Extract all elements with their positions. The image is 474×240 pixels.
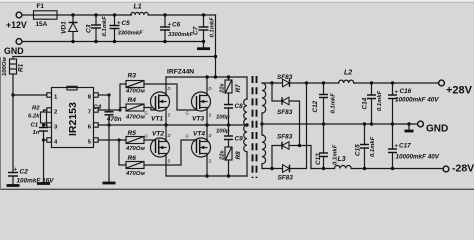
capacitor C15 0.1mkF <box>355 124 377 169</box>
svg-text:+: + <box>395 90 399 96</box>
node C5 top <box>113 13 116 16</box>
wire pin 4 stub to ground line <box>44 139 47 141</box>
node pin 8 / C4 <box>107 93 110 96</box>
svg-text:6.2k: 6.2k <box>28 114 40 120</box>
node C12 bottom <box>322 122 325 125</box>
svg-text:S: S <box>209 159 212 164</box>
node +12V rail / VCC feed <box>214 55 217 58</box>
wire -28V bus right of L3 <box>351 168 443 170</box>
node C14 bottom <box>370 122 373 125</box>
node pin4 ground <box>42 138 45 141</box>
diode D3 SF83 <box>277 97 293 116</box>
svg-text:+28V: +28V <box>446 85 473 97</box>
ground symbol under C4 line <box>103 182 116 185</box>
svg-text:L2: L2 <box>344 70 352 77</box>
wire VT1 drain to +12V drain rail <box>165 77 167 96</box>
node bottom rail R8 <box>227 174 230 177</box>
svg-text:470Ом: 470Ом <box>125 115 145 121</box>
wire VT4 drain to midpoint rail <box>206 125 208 142</box>
svg-text:+: + <box>117 21 121 27</box>
wire VCC feed line to R1 <box>13 56 216 58</box>
pin 1 <box>47 93 58 101</box>
node VD1 top <box>71 13 74 16</box>
transformer secondary winding lower <box>262 135 266 164</box>
node drain rail VT3 <box>205 75 208 78</box>
inductor L3 <box>335 156 352 169</box>
node C16 top <box>391 81 394 84</box>
diode D2 SF83 <box>278 165 294 182</box>
svg-text:R3: R3 <box>128 73 137 80</box>
wire pin 3 stub <box>44 125 47 128</box>
inductor L1 <box>131 4 149 16</box>
svg-text:C17: C17 <box>399 143 411 150</box>
node C12 top <box>322 81 325 84</box>
svg-text:SF83: SF83 <box>277 134 293 141</box>
resistor R8 22k <box>220 140 243 177</box>
ground symbol at input filter <box>197 42 210 49</box>
pin 7 <box>88 108 98 116</box>
svg-text:VT2: VT2 <box>152 131 164 138</box>
wire GND rail <box>22 41 204 43</box>
svg-text:D: D <box>168 133 171 138</box>
capacitor C6 3300mkF <box>160 15 194 42</box>
svg-text:0.1mkF: 0.1mkF <box>377 90 383 111</box>
wire pin7 node up to R3 <box>120 84 126 110</box>
wire pin 6 to midpoint rail <box>98 124 247 126</box>
ground symbol under C2 <box>7 184 20 187</box>
node bottom rail VT4 <box>205 174 208 177</box>
svg-text:R7: R7 <box>235 84 242 93</box>
capacitor C4 470n <box>93 104 122 123</box>
wire secondary center tap <box>261 113 263 135</box>
node drain rail +12V feed <box>214 75 217 78</box>
capacitor C8 100p <box>216 103 243 125</box>
node midpoint rail VT3 <box>205 123 208 126</box>
capacitor C16 10000mkF 40V <box>388 83 439 124</box>
svg-text:3300mkF: 3300mkF <box>118 31 144 37</box>
wire -28V bus left of L3 <box>311 168 335 170</box>
svg-text:R5: R5 <box>128 130 137 137</box>
svg-text:3300mkF: 3300mkF <box>168 32 194 38</box>
wire +12V rail drop to VCC feed <box>215 15 217 77</box>
wire VT4 source to bottom rail <box>206 154 208 177</box>
svg-text:100p: 100p <box>216 129 230 135</box>
capacitor C5 3300mkF <box>110 15 144 42</box>
svg-text:C3: C3 <box>86 24 93 33</box>
ground symbol under C1 <box>37 182 50 185</box>
svg-text:+: + <box>168 22 172 28</box>
node C3 bottom <box>94 40 97 43</box>
svg-text:+: + <box>395 144 399 150</box>
node C14 top <box>370 81 373 84</box>
node D2 riser on +28V bus <box>305 81 308 84</box>
transformer primary winding <box>244 99 247 152</box>
svg-text:100Ом: 100Ом <box>2 57 8 76</box>
node C17 bottom <box>391 167 394 170</box>
capacitor C7 0.1mkF <box>193 15 216 42</box>
node C3 top <box>94 13 97 16</box>
node C7 top <box>202 13 205 16</box>
transistor Q VT3 <box>186 86 212 123</box>
resistor R1 100Om <box>2 57 25 96</box>
svg-text:C1: C1 <box>31 123 39 129</box>
svg-text:SF83: SF83 <box>278 175 294 182</box>
pin 2 <box>47 108 58 116</box>
node pin 5 branch <box>117 138 120 141</box>
node C13 bottom <box>322 167 325 170</box>
svg-text:C15: C15 <box>355 144 362 156</box>
pin 6 <box>88 123 98 131</box>
wire pin 7 <box>98 109 120 111</box>
node midpoint rail primary tap <box>245 123 248 126</box>
wire VT3 source to midpoint rail <box>206 108 208 126</box>
node C15 top <box>363 122 366 125</box>
wire top rail after L1 <box>149 14 216 16</box>
capacitor C17 10000mkF 40V <box>388 124 440 169</box>
wire pin 5 <box>98 139 126 141</box>
capacitor C12 0.1mkF <box>312 83 337 124</box>
wire pin8 node down to C4 <box>108 95 110 112</box>
node pin3 / C1 <box>42 123 45 126</box>
ground symbol on mid bus <box>405 122 414 131</box>
svg-text:S: S <box>209 113 212 118</box>
svg-text:10000mkF 40V: 10000mkF 40V <box>395 97 439 104</box>
wire VT2 source to bottom rail <box>165 154 167 177</box>
svg-text:470Ом: 470Ом <box>125 146 145 152</box>
svg-text:15A: 15A <box>36 21 48 28</box>
node VD1 bottom <box>71 40 74 43</box>
svg-text:10000mkF 40V: 10000mkF 40V <box>396 154 440 161</box>
node secondary tap <box>260 122 263 125</box>
svg-text:-28V: -28V <box>452 163 474 175</box>
node C15 bottom <box>363 167 366 170</box>
node X1 <box>270 81 273 84</box>
resistor R7 22k <box>220 77 243 105</box>
transistor Q VT4 <box>186 131 212 164</box>
wire +28V bus after L2 <box>354 82 439 84</box>
wire VCC node down to C2 <box>12 95 14 173</box>
svg-text:0.1mkF: 0.1mkF <box>210 17 216 38</box>
svg-text:L3: L3 <box>338 156 346 163</box>
svg-text:22к: 22к <box>220 149 226 161</box>
terminal +12V <box>6 12 27 30</box>
node midpoint rail VT1 <box>164 123 167 126</box>
svg-text:C9: C9 <box>235 136 244 143</box>
wire X1 to diodes <box>262 82 283 84</box>
wire VCC node to pin 1 <box>13 94 47 96</box>
svg-text:IRFZ44N: IRFZ44N <box>167 69 194 76</box>
svg-text:SF83: SF83 <box>277 109 293 116</box>
transistor Q VT2 <box>145 131 171 164</box>
node X2 <box>270 167 273 170</box>
svg-text:GND: GND <box>4 46 24 56</box>
wire D2 cathode riser to +28V bus <box>290 83 307 169</box>
capacitor C3 0.1mkF <box>86 15 109 42</box>
svg-text:+12V: +12V <box>6 20 27 30</box>
pin 8 <box>88 93 98 101</box>
diode D1 SF83 <box>277 74 293 87</box>
node C4 / pin 6 line <box>107 123 110 126</box>
svg-text:R2: R2 <box>32 106 40 112</box>
resistor R6 470Om <box>125 155 145 177</box>
wire X1 down to D3 <box>272 83 283 101</box>
pin 5 <box>88 138 98 146</box>
wire VT2 drain to midpoint rail <box>165 125 167 142</box>
wire primary bottom lead <box>246 152 248 176</box>
terminal GND output <box>418 121 449 134</box>
node C7 bottom / GND rail end <box>202 40 205 43</box>
svg-text:D: D <box>209 133 212 138</box>
node C5 bottom <box>113 40 116 43</box>
wire D4 anode to -28V riser <box>289 146 311 169</box>
svg-text:0.1mkF: 0.1mkF <box>331 93 337 114</box>
terminal -28V <box>443 163 474 175</box>
diode D4 SF83 <box>277 134 293 150</box>
svg-text:GND: GND <box>426 124 448 135</box>
svg-text:C7: C7 <box>193 26 200 35</box>
svg-text:L1: L1 <box>134 4 142 11</box>
svg-text:470n: 470n <box>106 116 122 123</box>
svg-text:+: + <box>14 167 18 173</box>
svg-text:22к: 22к <box>220 82 226 94</box>
svg-text:C8: C8 <box>235 103 244 110</box>
node C6 bottom <box>163 40 166 43</box>
svg-text:SF83: SF83 <box>277 74 293 81</box>
svg-text:C5: C5 <box>122 20 131 27</box>
node midpoint rail snubber <box>227 123 230 126</box>
wire primary top lead <box>246 77 248 99</box>
wire pin7 node to R4 <box>120 107 126 109</box>
wire R6 to VT4 gate <box>144 140 197 165</box>
svg-text:S: S <box>168 159 171 164</box>
wire VT3 drain to rail <box>206 77 208 96</box>
node drain rail R7 <box>227 75 230 78</box>
resistor R5 470Om <box>125 130 145 152</box>
wire X2 <box>262 168 283 170</box>
wire R4 to VT1 gate <box>144 108 156 111</box>
node C6 top <box>163 13 166 16</box>
node D3/D4 anode junction <box>298 144 301 147</box>
fuse F1 15A <box>34 3 58 28</box>
transistor Q VT1 <box>145 86 171 123</box>
node C16 bottom <box>391 122 394 125</box>
wire secondary lower to X2 <box>261 164 263 169</box>
svg-text:C2: C2 <box>20 169 29 176</box>
wire pin 8 <box>98 94 109 96</box>
svg-text:VT4: VT4 <box>193 131 205 138</box>
svg-text:VT3: VT3 <box>192 116 204 123</box>
wire D4 left to X2 riser <box>272 146 282 169</box>
capacitor C13 0.1mkF <box>315 124 339 169</box>
svg-text:100p: 100p <box>216 115 230 121</box>
transformer secondary winding upper <box>262 83 266 113</box>
capacitor C2 100mkF 16V <box>8 167 54 185</box>
svg-text:VT1: VT1 <box>151 116 163 123</box>
svg-text:F1: F1 <box>37 3 45 10</box>
svg-text:D: D <box>168 86 171 91</box>
svg-text:C6: C6 <box>172 22 181 29</box>
capacitor C9 100p <box>216 125 243 143</box>
svg-text:R6: R6 <box>128 155 137 162</box>
svg-text:C14: C14 <box>362 97 369 109</box>
capacitor C1 1n <box>31 123 49 184</box>
node R1 bottom / VCC <box>11 93 14 96</box>
wire D1 cathode to +28V bus <box>290 82 339 84</box>
svg-text:D: D <box>209 86 212 91</box>
wire pin 2 stub <box>44 110 47 112</box>
inductor L2 <box>339 70 354 84</box>
svg-text:0.1mkF: 0.1mkF <box>102 16 108 37</box>
svg-text:IR2153: IR2153 <box>67 102 79 136</box>
wire R5 to VT2 gate <box>144 139 156 141</box>
wire bottom source rail <box>166 175 247 177</box>
resistor R2 6.2k <box>28 106 47 124</box>
svg-text:0.1mkF: 0.1mkF <box>370 136 376 157</box>
svg-text:C12: C12 <box>312 100 319 112</box>
resistor R4 470Om <box>125 97 145 121</box>
wire GND mid bus <box>262 123 418 125</box>
svg-text:R8: R8 <box>235 151 242 160</box>
wire pin5 node down to R6 <box>119 140 126 165</box>
wire R3 to VT3 gate <box>144 84 197 110</box>
svg-text:C13: C13 <box>315 153 322 165</box>
terminal GND <box>4 39 24 56</box>
resistor R3 470Om <box>125 73 145 95</box>
diode VD1 <box>61 15 78 42</box>
wire drain rail <box>166 76 247 78</box>
wire +12V top rail <box>57 14 132 16</box>
terminal +28V <box>439 80 473 96</box>
svg-text:470Ом: 470Ом <box>125 171 145 177</box>
svg-text:1n: 1n <box>33 130 40 136</box>
op-amp U1 IR2153 body <box>52 86 94 147</box>
node pin 7 branch <box>118 108 121 111</box>
wire C4 bottom to pin6 line and down to ground <box>108 115 110 183</box>
pin 3 <box>47 123 58 131</box>
svg-text:S: S <box>168 113 171 118</box>
svg-text:VD1: VD1 <box>61 21 68 34</box>
transformer core <box>253 76 257 178</box>
wire terminal to fuse <box>22 14 34 16</box>
svg-text:C16: C16 <box>400 88 412 95</box>
capacitor C14 0.1mkF <box>362 83 384 124</box>
svg-text:R4: R4 <box>128 97 137 104</box>
svg-text:R1: R1 <box>18 63 25 72</box>
pin 4 <box>47 138 58 146</box>
wire D3 anode to minus riser <box>289 101 300 146</box>
wire VT1 source to midpoint rail <box>165 108 167 126</box>
svg-text:470Ом: 470Ом <box>125 89 145 95</box>
